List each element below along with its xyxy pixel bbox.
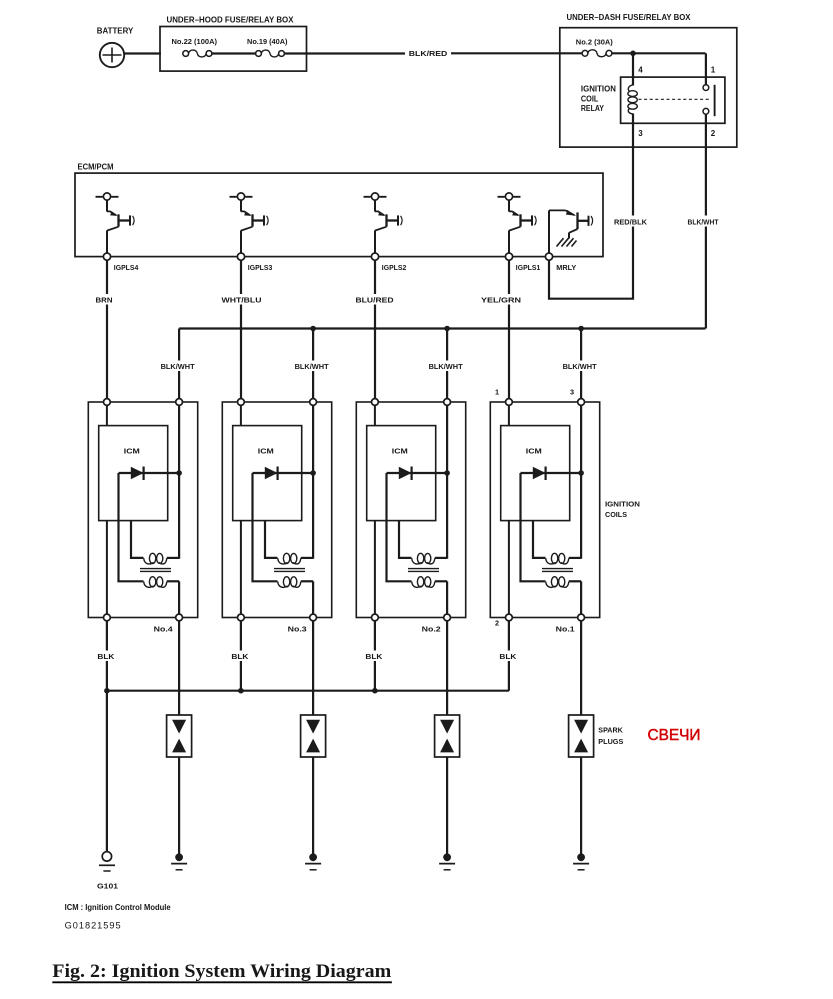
svg-text:4: 4 [638,66,643,75]
svg-text:WHT/BLU: WHT/BLU [222,296,262,305]
svg-text:BATTERY: BATTERY [97,27,134,36]
svg-text:BLK/WHT: BLK/WHT [429,362,464,371]
ignition coil assembly No.2 outer box [356,402,465,618]
wire B+ rail No.3 [312,405,314,558]
wire BLK coil No.4 to ground bus [96,621,115,691]
svg-text:ICM: ICM [526,447,542,456]
wire spark plug P1 to ground [580,757,582,855]
ground spark plug P3 [305,853,321,869]
svg-text:UNDER–HOOD FUSE/RELAY BOX: UNDER–HOOD FUSE/RELAY BOX [167,15,294,25]
wire ICM ground leg No.3 [240,521,242,615]
svg-text:BLK/WHT: BLK/WHT [161,362,196,371]
wire BLK/WHT stub to coil No.3 pin [294,329,331,403]
svg-text:BLK: BLK [365,652,383,661]
wire B+ rail No.4 [178,405,180,558]
svg-text:No.2 (30A): No.2 (30A) [576,38,614,47]
junction node bus-No.3 BLK [238,688,244,694]
svg-text:IGNITION: IGNITION [605,500,640,509]
fuse No.22 (100A) [172,37,218,57]
junction node bus-No.1 [578,326,584,332]
wire coil No.1 HT output to spark plug [580,621,582,715]
diode D1 in No.1 [521,467,582,481]
wire coil No.3 HT output to spark plug [312,621,314,715]
svg-text:1: 1 [495,388,499,397]
junction node diode-B+ No.4 [176,470,182,476]
wire pin to ICM No.3 [240,405,242,425]
svg-text:2: 2 [711,129,716,138]
transistor Q2 driver IGPLS2 [364,193,403,260]
fuse No.2 (30A) [576,38,614,57]
svg-text:2: 2 [495,619,499,628]
wire B+ rail No.2 [446,405,448,558]
fuse No.19 (40A) [247,37,288,57]
svg-text:СВЕЧИ: СВЕЧИ [648,727,701,744]
svg-text:BLK: BLK [231,652,249,661]
svg-text:No.4: No.4 [154,625,174,634]
svg-text:No.3: No.3 [288,625,307,634]
svg-text:G101: G101 [97,882,118,891]
junction node bus-No.3 [310,326,316,332]
battery [97,27,134,68]
svg-text:COIL: COIL [581,94,599,103]
diode D4 in No.4 [119,467,180,481]
wire fuse to relay pins [612,52,706,54]
svg-text:3: 3 [638,129,643,138]
wire ICM ground leg No.4 [106,521,108,615]
spark plug P4 [167,715,192,757]
ICM module No.2 [367,426,436,521]
svg-text:IGPLS1: IGPLS1 [516,263,541,272]
wire BLK/WHT relay pin2 down to bus [686,114,721,329]
svg-text:BLK/RED: BLK/RED [409,49,448,58]
relay contact [703,85,715,117]
svg-text:Fig. 2: Ignition System Wiring: Fig. 2: Ignition System Wiring Diagram [52,961,391,982]
wire ICM to primary No.3 [265,521,278,558]
wire to ground G101 [106,691,108,852]
secondary winding No.2 [412,577,447,615]
ICM module No.4 [99,426,168,521]
svg-text:BLK/WHT: BLK/WHT [688,218,719,227]
svg-text:COILS: COILS [605,510,627,519]
svg-text:IGPLS2: IGPLS2 [382,263,407,272]
under-hood fuse/relay box [160,15,307,72]
wire diode to secondary No.1 [521,473,546,581]
svg-text:IGNITION: IGNITION [581,85,616,94]
svg-text:No.1: No.1 [556,625,575,634]
secondary winding No.1 [546,577,581,615]
wire spark plug P2 to ground [446,757,448,855]
svg-text:YEL/GRN: YEL/GRN [481,296,521,305]
transistor Q3 driver IGPLS3 [230,193,269,260]
label SPARK PLUGS [598,726,623,747]
wire BLK coil No.3 to ground bus [230,621,249,691]
wire ICM to primary No.4 [131,521,144,558]
ground bus [107,690,509,692]
diode D3 in No.3 [253,467,314,481]
wire ICM to primary No.2 [399,521,412,558]
junction node G101 drop [104,688,110,694]
connector pins No.1 [506,399,585,621]
junction node bus-No.2 BLK [372,688,378,694]
wire B+ rail No.1 [580,405,582,558]
ignition coil assembly No.3 outer box [222,402,331,618]
svg-text:BLK: BLK [499,652,517,661]
svg-text:No.2: No.2 [422,625,441,634]
wire pin to ICM No.2 [374,405,376,425]
ignition coil assembly No.1 outer box [490,402,599,618]
svg-text:ICM: ICM [124,447,140,456]
svg-text:SPARK: SPARK [598,726,623,735]
wire BLK/WHT stub to coil No.2 pin [428,329,465,403]
wire ICM to primary No.1 [533,521,546,558]
secondary winding No.3 [278,577,313,615]
primary winding No.3 [278,553,313,564]
wire BLK/WHT stub to coil No.1 pin [562,329,599,403]
relay actuation dashed link [639,98,710,100]
transformer core No.1 [542,569,573,572]
ignition coil assembly No.4 outer box [88,402,197,618]
primary winding No.4 [144,553,179,564]
wire spark plug P4 to ground [178,757,180,855]
svg-text:ICM: ICM [392,447,408,456]
wire battery to under-hood fuse box [124,52,162,54]
svg-text:RELAY: RELAY [581,104,605,113]
caption Fig. 2 [52,961,392,982]
under-dash fuse/relay box [560,12,737,147]
wire spark plug P3 to ground [312,757,314,855]
wire BLK coil No.1 to ground bus [498,621,517,691]
ICM module No.1 [501,426,570,521]
svg-text:RED/BLK: RED/BLK [614,218,648,227]
svg-text:MRLY: MRLY [556,263,576,272]
ground spark plug P2 [439,853,455,869]
ground spark plug P1 [573,853,589,869]
ignition coil relay U1 [581,77,725,123]
transformer core No.3 [274,569,305,572]
connector pins No.4 [104,399,183,621]
wire diode to secondary No.3 [253,473,278,581]
ground spark plug P4 [171,853,187,869]
wire WHT/BLU IGPLS3 to coil No.3 [221,260,263,402]
svg-text:IGPLS4: IGPLS4 [114,263,139,272]
wire RED/BLK relay pin3 to MRLY [549,114,650,299]
svg-text:G01821595: G01821595 [65,921,122,931]
svg-text:BLK/WHT: BLK/WHT [295,362,330,371]
diode D2 in No.2 [387,467,448,481]
relay coil winding [628,85,637,114]
pin 1 wire [706,53,716,85]
BLK/WHT distribution bus [179,327,705,329]
ground G101 [97,852,118,891]
wire YEL/GRN IGPLS1 to coil No.1 [480,260,523,402]
wire BRN IGPLS4 to coil No.4 [95,260,114,402]
svg-text:No.22 (100A): No.22 (100A) [172,37,218,46]
svg-text:ICM : Ignition Control Module: ICM : Ignition Control Module [65,903,172,912]
pin 4 wire [633,53,643,85]
transformer core No.4 [140,569,171,572]
svg-text:BLK: BLK [97,652,115,661]
wire ICM ground leg No.1 [508,521,510,615]
svg-text:UNDER–DASH FUSE/RELAY BOX: UNDER–DASH FUSE/RELAY BOX [567,12,691,22]
svg-text:ECM/PCM: ECM/PCM [78,163,114,172]
ICM module No.3 [233,426,302,521]
svg-text:ICM: ICM [258,447,274,456]
svg-text:3: 3 [570,388,574,397]
primary winding No.2 [412,553,447,564]
transistor Q1 driver IGPLS1 [498,193,537,260]
wire coil No.4 HT output to spark plug [178,621,180,715]
spark plug P1 [569,715,594,757]
primary winding No.1 [546,553,581,564]
wire BLK/RED to under-dash box [284,49,582,58]
svg-text:BRN: BRN [96,296,113,305]
wire pin to ICM No.1 [508,405,510,425]
spark plug P2 [435,715,460,757]
secondary winding No.4 [144,577,179,615]
internal ground of MRLY [557,238,577,246]
svg-text:1: 1 [711,66,716,75]
transformer core No.2 [408,569,439,572]
wire pin to ICM No.4 [106,405,108,425]
wire BLK coil No.2 to ground bus [364,621,383,691]
ECM/PCM box [75,163,603,257]
connector pins No.3 [238,399,317,621]
wire between fuses [212,52,256,54]
junction node diode-B+ No.1 [578,470,584,476]
wire BLK/WHT stub to coil No.4 pin [160,329,197,403]
spark plug P3 [301,715,326,757]
junction node at fuse output [630,51,636,57]
svg-text:PLUGS: PLUGS [598,737,623,746]
junction node diode-B+ No.2 [444,470,450,476]
wire diode to secondary No.2 [387,473,412,581]
transistor Q4 driver IGPLS4 [96,193,135,260]
svg-text:BLU/RED: BLU/RED [356,296,394,305]
junction node bus-No.2 [444,326,450,332]
label IGNITION COILS [605,500,640,520]
svg-text:No.19 (40A): No.19 (40A) [247,37,288,46]
svg-text:BLK/WHT: BLK/WHT [563,362,598,371]
wire BLU/RED IGPLS2 to coil No.2 [355,260,396,402]
wire diode to secondary No.4 [119,473,144,581]
svg-text:IGPLS3: IGPLS3 [248,263,272,272]
connector pins No.2 [372,399,451,621]
transistor Q5 MRLY relay driver [545,210,592,260]
wire coil No.2 HT output to spark plug [446,621,448,715]
junction node diode-B+ No.3 [310,470,316,476]
wire ICM ground leg No.2 [374,521,376,615]
